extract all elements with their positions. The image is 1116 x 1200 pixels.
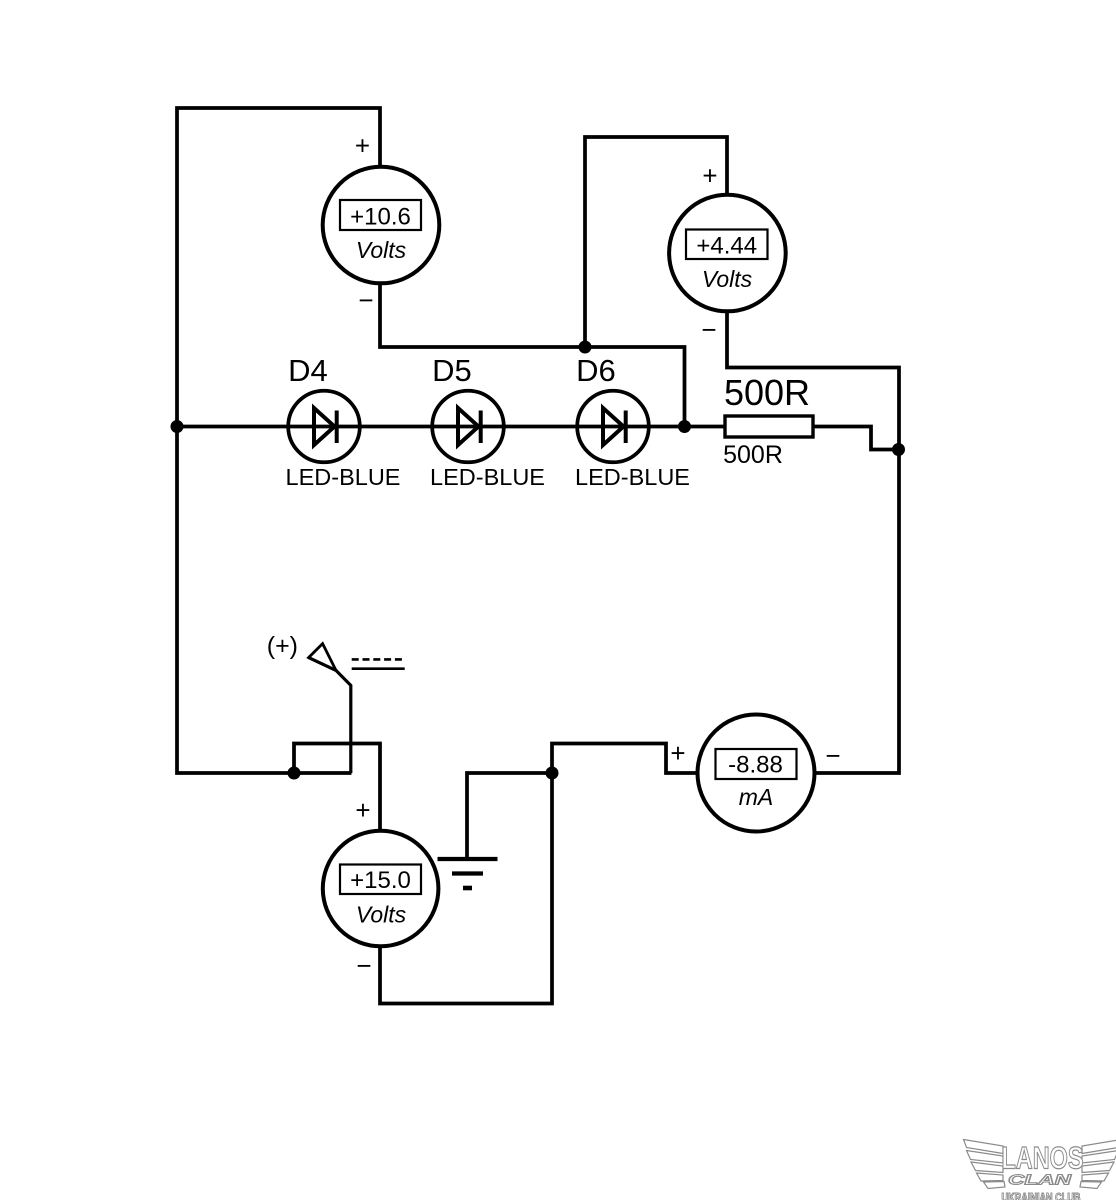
ground [438,859,498,888]
svg-text:D4: D4 [288,353,328,388]
watermark logo LANOS CLAN [964,1140,1116,1200]
node junction before resistor [678,420,691,433]
wire V3 minus return to mid rail [380,773,552,1004]
wire bottom loop to V3 plus [294,744,380,831]
wire ground branch [467,773,552,858]
svg-text:D6: D6 [576,353,616,388]
svg-text:+: + [702,161,717,191]
voltmeter V1 +10.6 Volts [323,131,440,316]
wire resistor right elbow [813,427,899,450]
resistor R1 500R [723,372,813,469]
LED D4 [286,353,401,490]
wire main LED rail [177,425,725,429]
svg-text:500R: 500R [723,441,783,469]
svg-text:(+): (+) [267,632,298,660]
wire outer left loop: V1 top to top-left corner down to bottom rail [177,108,380,773]
left wing [964,1140,1006,1189]
svg-text:+4.44: +4.44 [696,233,757,260]
svg-text:mA: mA [739,784,774,810]
svg-text:-8.88: -8.88 [728,752,783,779]
node junction right rail [892,443,905,456]
svg-text:LED-BLUE: LED-BLUE [430,464,545,490]
svg-text:−: − [356,951,371,981]
svg-text:D5: D5 [432,353,472,388]
svg-text:Volts: Volts [356,902,407,928]
wire right rail down to ammeter minus [815,450,900,774]
svg-text:+: + [355,795,370,825]
svg-text:CLAN: CLAN [1008,1172,1073,1189]
input terminal (+) [267,632,405,773]
node junction top row [579,341,592,354]
svg-text:−: − [825,741,840,771]
svg-text:+15.0: +15.0 [350,867,411,894]
node junction bottom middle [546,767,559,780]
wire V2 minus lead right and down to right rail [727,311,899,450]
wire ammeter plus feed [552,744,698,774]
voltmeter V2 +4.44 Volts [669,161,786,345]
LED D5 [430,353,545,490]
svg-text:+: + [670,738,685,768]
wire V1 minus lead to node row then drop to LED rail [380,284,685,427]
svg-text:Volts: Volts [702,266,753,292]
svg-text:Volts: Volts [356,237,407,263]
voltmeter V3 +15.0 Volts [323,795,439,981]
svg-text:+: + [355,131,370,161]
svg-text:LED-BLUE: LED-BLUE [286,464,401,490]
svg-text:−: − [701,315,716,345]
wire top-right loop from node to V2 plus lead [585,137,727,347]
svg-text:−: − [358,285,373,315]
svg-text:LED-BLUE: LED-BLUE [575,464,690,490]
svg-text:500R: 500R [724,372,810,413]
node junction bottom left [288,767,301,780]
ammeter A1 -8.88 mA [670,715,840,832]
svg-text:UKRAINIAN CLUB: UKRAINIAN CLUB [1002,1193,1081,1200]
node junction left rail [171,420,184,433]
LED D6 [575,353,690,490]
right wing [1080,1140,1116,1189]
svg-text:+10.6: +10.6 [350,204,411,231]
svg-text:LANOS: LANOS [1002,1140,1084,1176]
